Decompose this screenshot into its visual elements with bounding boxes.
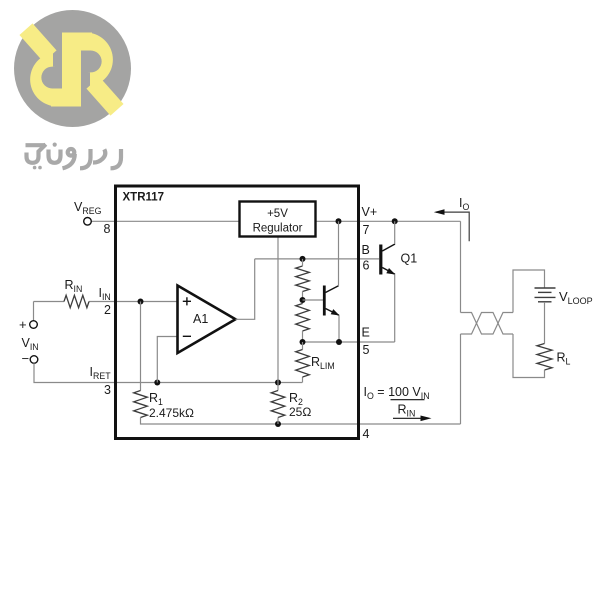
logo letter R left (rotated copy) (26, 29, 80, 106)
svg-text:VLOOP: VLOOP (559, 289, 593, 306)
resistor RIN (64, 295, 89, 307)
svg-text:2.475kΩ: 2.475kΩ (149, 406, 194, 420)
wire divider upper stubs (302, 259, 304, 266)
svg-text:+5V: +5V (267, 208, 288, 220)
resistor R2 (271, 391, 285, 418)
wire opamp output to B (236, 259, 255, 319)
junction dot R2 bottom (275, 421, 281, 427)
wire R2 bottom stub (277, 418, 279, 425)
junction dot E Rlim (300, 339, 306, 345)
wire R1 branch (140, 302, 142, 391)
opamp plus sign (183, 297, 191, 305)
wire R1 bottom (141, 418, 461, 425)
regulator U1 box (240, 202, 316, 237)
terminal Vreg (84, 218, 92, 226)
logo persian wordmark (26, 144, 122, 168)
svg-text:IO = 100 VIN: IO = 100 VIN (364, 385, 430, 401)
wire Vreg pin8 (92, 220, 240, 222)
svg-text:3: 3 (104, 383, 111, 397)
svg-text:IIN: IIN (99, 286, 111, 302)
svg-text:VIN: VIN (22, 336, 39, 352)
wire E rail (303, 341, 395, 343)
svg-text:B: B (362, 243, 370, 257)
svg-text:RL: RL (557, 351, 571, 367)
terminal Vin minus (30, 356, 38, 364)
svg-text:Regulator: Regulator (253, 223, 303, 235)
wire loop top right (513, 270, 545, 313)
svg-text:RIN: RIN (398, 403, 416, 419)
resistor divider upper (296, 266, 310, 292)
arrow Io annotation (436, 212, 469, 241)
wire base internal (303, 299, 324, 301)
wire regulator bottom to R2 (277, 237, 279, 391)
opamp minus sign (183, 335, 191, 337)
transistor Q1 (381, 244, 396, 275)
wire Q1 emitter (394, 274, 396, 342)
wire divider lower stub (302, 331, 304, 342)
formula fraction bar (391, 399, 425, 401)
junction dot B divider (300, 256, 306, 262)
wire Q1 collector (394, 221, 396, 244)
junction dot R2 top (275, 380, 281, 386)
svg-text:VREG: VREG (74, 200, 102, 216)
wire right loop down upper (460, 221, 462, 312)
junction dot regulator output (336, 218, 342, 224)
logo letter R right (64, 33, 118, 110)
junction dot Q1 collector (392, 218, 398, 224)
svg-text:IO: IO (459, 196, 469, 212)
svg-text:R1: R1 (149, 391, 163, 407)
wire battery to RL (544, 302, 546, 344)
svg-text:8: 8 (104, 222, 111, 236)
junction dot E emitter (336, 339, 342, 345)
junction dot divider mid (300, 297, 306, 303)
twisted pair (461, 313, 514, 335)
svg-text:2: 2 (104, 303, 111, 317)
junction dot minus input (154, 380, 160, 386)
svg-text:7: 7 (363, 223, 370, 237)
wire internal collector (338, 221, 340, 285)
svg-text:5: 5 (363, 343, 370, 357)
wire regulator to V+ pin7 (316, 220, 461, 222)
svg-text:25Ω: 25Ω (289, 405, 311, 419)
svg-text:IRET: IRET (90, 365, 112, 381)
wire minus input branch (157, 337, 177, 383)
wire B rail (255, 258, 379, 260)
wire Vin minus stub (34, 363, 302, 382)
wire loop bottom right (513, 334, 545, 378)
op-amp A1 (178, 286, 236, 354)
resistor RL (537, 344, 552, 371)
svg-text:Q1: Q1 (401, 252, 418, 266)
svg-text:E: E (362, 326, 370, 340)
svg-text:+: + (19, 317, 27, 332)
wire Vin plus stub (33, 302, 35, 321)
svg-text:V+: V+ (362, 205, 378, 219)
svg-text:A1: A1 (193, 312, 208, 326)
resistor RLIM (296, 350, 310, 378)
svg-text:RLIM: RLIM (311, 355, 335, 371)
resistor R1 (134, 391, 148, 418)
svg-text:−: − (22, 351, 30, 366)
XTR117 package outline (116, 186, 359, 439)
wire internal emitter (338, 315, 340, 342)
battery VLOOP (535, 288, 556, 302)
wire right loop down lower (460, 334, 462, 424)
svg-text:6: 6 (363, 259, 370, 273)
resistor divider lower (296, 304, 310, 332)
svg-text:4: 4 (363, 427, 370, 441)
wire Vin+ to Rin to pin2 (34, 301, 65, 303)
svg-text:XTR117: XTR117 (123, 192, 165, 204)
wire Rlim stubs (302, 342, 304, 350)
terminal Vin plus (30, 321, 38, 329)
transistor internal (324, 286, 339, 316)
svg-text:RIN: RIN (65, 278, 83, 294)
junction dot plus input node (138, 299, 144, 305)
logo circle background (14, 10, 131, 127)
formula arrow (393, 417, 424, 419)
